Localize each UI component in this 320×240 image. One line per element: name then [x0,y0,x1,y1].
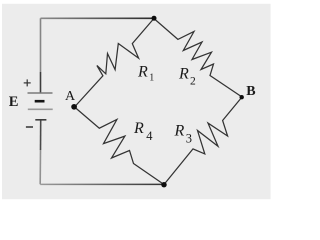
resistor R4 zigzag between node A and bottom node [75,107,165,185]
svg-text:1: 1 [149,73,154,84]
svg-text:2: 2 [190,75,196,87]
wire top horizontal from battery to top node [41,17,154,19]
minus sign [26,126,33,128]
svg-text:R: R [133,120,144,137]
junction dot node A [71,104,77,110]
battery E plate 2 short thick [35,100,45,103]
junction dot node B [240,95,244,99]
plus sign [24,79,31,86]
svg-text:A: A [65,89,76,104]
resistor R3 zigzag between node B and bottom node [164,97,242,185]
battery E plate 4 short [35,119,46,121]
resistor R2 zigzag between top node and node B [154,19,242,98]
wire bottom horizontal to bottom node [40,183,164,185]
junction dot bottom node [161,182,166,187]
svg-text:R: R [137,64,148,81]
junction dot top node [152,16,157,21]
battery E plate 3 long [28,108,53,110]
paper background [0,0,272,202]
svg-text:4: 4 [146,129,153,143]
svg-text:R: R [178,66,189,83]
battery E plate 1 long [28,92,53,94]
svg-text:3: 3 [186,131,192,145]
wire left vertical battery negative lead [40,120,42,150]
wire left vertical battery positive lead [40,18,42,72]
svg-text:E: E [9,94,19,110]
svg-text:R: R [174,122,185,139]
svg-text:B: B [246,84,255,99]
resistor R1 zigzag between node A and top node [75,19,154,108]
